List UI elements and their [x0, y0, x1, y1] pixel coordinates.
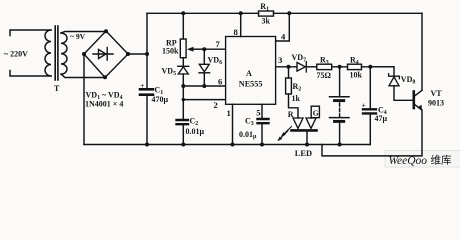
node bridge bottom — [103, 75, 107, 79]
wire R2 top — [288, 67, 290, 78]
resistor R1 3k — [259, 11, 274, 16]
RP wiper arrow — [192, 48, 204, 50]
svg-text:VD8: VD8 — [401, 75, 416, 86]
top rail — [147, 12, 422, 14]
node pin1 gnd — [231, 143, 235, 147]
svg-text:10k: 10k — [350, 71, 363, 80]
diode VD7 (pointing right) — [297, 63, 305, 72]
zener diode VD8 (pointing up, bent cathode bar on top) — [389, 74, 400, 79]
node C3 gnd — [260, 143, 264, 147]
wire LED cathode to rail — [306, 132, 308, 145]
LED G top stub — [310, 117, 312, 119]
wire RP stub from rail — [182, 13, 184, 39]
wire pin 3 output — [276, 66, 297, 68]
svg-text:0.01μ: 0.01μ — [186, 127, 205, 136]
wire battery bottom — [339, 123, 341, 145]
node C2 gnd — [181, 143, 185, 147]
wire primary bottom — [10, 71, 51, 77]
wire VD5 to pin6 rail — [182, 74, 184, 119]
watermark — [385, 151, 460, 168]
node bridge left — [82, 52, 86, 56]
bottom rail — [84, 144, 370, 146]
svg-text:VT: VT — [431, 89, 443, 98]
node VD5 pin6 — [181, 84, 185, 88]
svg-text:150k: 150k — [162, 47, 179, 56]
wire bridge plus to C1 node — [128, 53, 147, 55]
wire emitter down and sub-rail — [322, 110, 422, 156]
transformer T secondary winding — [61, 33, 67, 74]
node RP rail — [181, 11, 185, 15]
svg-text:C2: C2 — [190, 117, 199, 128]
svg-text:+: + — [140, 82, 144, 90]
svg-text:VD5: VD5 — [162, 67, 177, 78]
svg-text:G: G — [313, 108, 319, 117]
node battery gnd — [338, 143, 342, 147]
svg-text:5: 5 — [256, 108, 260, 118]
LED R — [293, 118, 303, 128]
transistor VT 9013 — [412, 92, 415, 109]
bridge rectifier diamond VD1-VD4 — [84, 31, 128, 78]
resistor R2 1k — [286, 78, 292, 94]
svg-text:A: A — [246, 69, 252, 78]
svg-text:8: 8 — [234, 27, 239, 37]
wire pin 8 stub — [240, 13, 242, 36]
svg-text:R: R — [288, 110, 294, 119]
potentiometer RP 150k body — [180, 39, 186, 58]
svg-text:1N4001 × 4: 1N4001 × 4 — [85, 100, 123, 109]
wire R4 to node — [362, 66, 395, 68]
wire pin 5 stub to C3 — [261, 104, 263, 144]
wire zener VD8 top — [370, 67, 394, 76]
battery GB cell2 — [330, 117, 350, 119]
wire pin 1 stub — [232, 104, 234, 144]
wire RP bottom to VD5 — [182, 58, 184, 66]
capacitor C4 47u plates — [363, 109, 376, 113]
svg-text:470μ: 470μ — [152, 95, 169, 104]
wire secondary bottom to bridge — [61, 74, 105, 78]
resistor R3 75ohm — [317, 64, 332, 69]
node R2 top — [287, 65, 291, 69]
svg-text:~ 220V: ~ 220V — [4, 50, 28, 59]
LED R emission arrows — [279, 127, 292, 141]
wire bridge minus down — [83, 54, 85, 145]
wire collector up — [421, 13, 423, 90]
svg-text:T: T — [54, 84, 60, 93]
svg-text:75Ω: 75Ω — [317, 71, 332, 80]
svg-text:R1: R1 — [260, 2, 269, 13]
wire C4 top — [369, 67, 371, 108]
bridge internal diode symbol — [93, 53, 113, 55]
svg-text:R2: R2 — [293, 82, 302, 93]
node bridge top — [104, 29, 108, 33]
node battery top — [338, 65, 342, 69]
capacitor C3 0.01u plates — [258, 119, 269, 123]
battery GB cell1 — [330, 96, 350, 98]
wire VD6 to pin6 wire — [203, 73, 205, 86]
wire VD6 top — [203, 49, 205, 64]
wire pin 2 — [183, 99, 225, 101]
svg-text:NE555: NE555 — [239, 79, 263, 88]
wire battery top — [339, 67, 341, 96]
wire secondary top to bridge — [61, 32, 106, 34]
wire C2 bottom — [182, 125, 184, 145]
capacitor C2 0.01u plates — [177, 120, 189, 124]
wire R2 bottom jog to LED R — [289, 94, 299, 118]
node pin8 rail — [239, 11, 243, 15]
svg-text:47μ: 47μ — [375, 114, 388, 123]
node LED gnd — [305, 143, 309, 147]
wire C4 bottom / rail end up — [369, 114, 371, 145]
svg-text:4: 4 — [281, 32, 286, 42]
node C1 top — [145, 52, 149, 56]
diode VD5 (pointing up, cathode bar on top) — [178, 65, 189, 67]
svg-text:LED: LED — [295, 149, 312, 158]
LED common cathode bar — [292, 129, 317, 132]
svg-text:~ 9V: ~ 9V — [70, 32, 86, 41]
svg-text:6: 6 — [218, 77, 223, 87]
svg-text:+: + — [362, 101, 367, 110]
battery dashed link — [339, 103, 341, 117]
LED G — [306, 118, 316, 128]
svg-text:0.01μ: 0.01μ — [239, 130, 257, 140]
svg-text:3k: 3k — [262, 17, 271, 26]
svg-text:R3: R3 — [320, 56, 329, 67]
svg-text:维库: 维库 — [431, 153, 452, 166]
wire VD8 to base — [394, 86, 414, 101]
svg-text:C3: C3 — [245, 117, 254, 128]
wire wiper node to pin7 — [204, 48, 225, 50]
resistor R4 10k — [348, 64, 362, 69]
svg-text:VD6: VD6 — [208, 56, 223, 67]
svg-text:1: 1 — [227, 108, 231, 118]
svg-text:7: 7 — [216, 39, 221, 49]
wire C1 vertical — [146, 13, 148, 144]
node wiper/pin7 — [202, 47, 206, 51]
node pin2 — [182, 98, 185, 101]
node pin4 rail — [287, 11, 291, 15]
transformer T primary winding — [45, 30, 51, 76]
transformer core — [55, 26, 58, 80]
svg-text:2: 2 — [214, 100, 218, 110]
node bridge right — [126, 52, 130, 56]
svg-text:9013: 9013 — [428, 99, 444, 108]
diode VD6 (pointing down) — [199, 64, 209, 72]
svg-text:1k: 1k — [292, 94, 301, 103]
wire pin 6 — [183, 85, 225, 87]
capacitor C1 470u plates — [140, 89, 153, 94]
node C1 gnd — [145, 143, 149, 147]
svg-text:R4: R4 — [350, 56, 359, 67]
wire R3 to R4 — [332, 66, 348, 68]
node VD6 pin6 — [202, 84, 206, 88]
node C4 top — [368, 65, 372, 69]
wire primary top — [10, 30, 51, 36]
LED G boxed label — [311, 106, 319, 118]
svg-text:3: 3 — [278, 55, 282, 65]
IC A NE555 box — [226, 37, 276, 105]
svg-text:VD7: VD7 — [292, 53, 307, 64]
wire pin 4 stub — [276, 13, 290, 41]
